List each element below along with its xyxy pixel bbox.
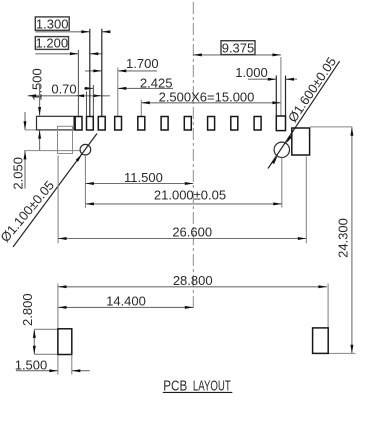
centerline of pad array (192, 2, 194, 311)
dimension 1.500 bottom (15, 358, 90, 373)
extension pad right edge down (71, 355, 73, 375)
extension line pad11 right edge (dark) (285, 76, 287, 117)
dimension 1.500 vertical (pad height) (29, 68, 44, 151)
dimension 2.050 vertical (10, 112, 26, 190)
svg-text:0.70: 0.70 (51, 82, 76, 97)
extension line right (26.600) (305, 157, 307, 244)
pad 4 (115, 117, 122, 131)
dimension 0.70 (28, 82, 110, 98)
extension bottom (2.800) (34, 353, 58, 355)
dimension 9.375 boxed (193, 41, 281, 57)
dimension 1.200 line (35, 52, 102, 55)
left tall pad (58, 126, 73, 153)
pad 8 (208, 117, 215, 131)
svg-text:11.500: 11.500 (124, 170, 163, 185)
svg-text:26.600: 26.600 (172, 224, 212, 239)
extension line pads bottom (25, 129, 37, 131)
svg-text:9.375: 9.375 (222, 41, 255, 56)
dimension 1.700 (85, 56, 159, 72)
extension bottom (24.300) (328, 352, 355, 354)
extension line pad2 left edge (86, 92, 88, 117)
dimension 2.500X6=15.000 (141, 90, 281, 105)
dimension 2.425 (84, 75, 173, 90)
extension left edge bottom-left pad (57, 284, 59, 375)
svg-text:2.050: 2.050 (10, 157, 25, 190)
extension line pad5 center (140, 100, 142, 117)
extension line pad2 center (dark) (89, 29, 91, 117)
svg-text:1.500: 1.500 (29, 68, 44, 101)
dimension 11.500 (85, 170, 193, 185)
extension line pad4 center (117, 68, 119, 117)
dimension 1.000 (235, 65, 297, 81)
dimension 2.800 vertical (20, 293, 36, 354)
svg-text:1.200: 1.200 (36, 36, 69, 51)
extension line left hole center horizontal (24, 150, 80, 152)
extension right edge bottom-right pad (327, 284, 329, 328)
extension line pad2 right edge (92, 85, 94, 116)
svg-text:2.800: 2.800 (20, 293, 35, 326)
wide left pad (37, 116, 75, 130)
pad 7 (184, 117, 191, 131)
svg-text:24.300: 24.300 (336, 218, 351, 258)
extension top (24.300) (310, 126, 352, 128)
dimension 28.800 (58, 273, 327, 288)
svg-text:1.700: 1.700 (126, 56, 159, 71)
extension line pad11 center (280, 57, 282, 116)
pad 2 (87, 117, 94, 131)
extension left hole center vertical (84, 155, 86, 208)
svg-text:28.800: 28.800 (173, 273, 213, 288)
right hole circle (274, 142, 289, 157)
left hole leader line (13, 134, 97, 248)
pad 9 (231, 117, 238, 131)
dimension 1.300 line (35, 30, 110, 33)
right mid pad (292, 128, 310, 155)
extension top (2.800) (34, 328, 58, 330)
right hole leader line (268, 61, 340, 168)
dimension 26.600 (58, 224, 306, 240)
svg-text:1.000: 1.000 (235, 65, 268, 80)
title PCB LAYOUT (163, 377, 233, 394)
bottom-left pad (58, 329, 72, 355)
dimension 21.000±0.05 (85, 188, 281, 206)
extension right hole center vertical (281, 158, 283, 208)
extension line pad1 center (77, 50, 79, 116)
pad 10 (254, 117, 261, 131)
extension line pad3 center (dark) (101, 29, 103, 117)
pad 1 (75, 117, 82, 131)
dimension 14.400 (58, 293, 193, 309)
bottom-right pad (313, 328, 329, 354)
pad 5 (138, 117, 145, 131)
dimension 24.300 vertical (336, 127, 354, 353)
extension line pad11 left edge (dark) (275, 76, 277, 117)
pad 11 (tall) (276, 116, 285, 131)
extension line left (26.600) (57, 156, 59, 244)
svg-text:21.000±0.05: 21.000±0.05 (154, 188, 226, 203)
pad 3 (98, 117, 105, 131)
svg-text:14.400: 14.400 (106, 293, 146, 308)
left hole circle (80, 144, 91, 155)
svg-text:1.300: 1.300 (36, 16, 69, 31)
pad 6 (161, 117, 168, 131)
label box 1.300 (35, 16, 69, 31)
label box 1.200 (35, 36, 68, 51)
